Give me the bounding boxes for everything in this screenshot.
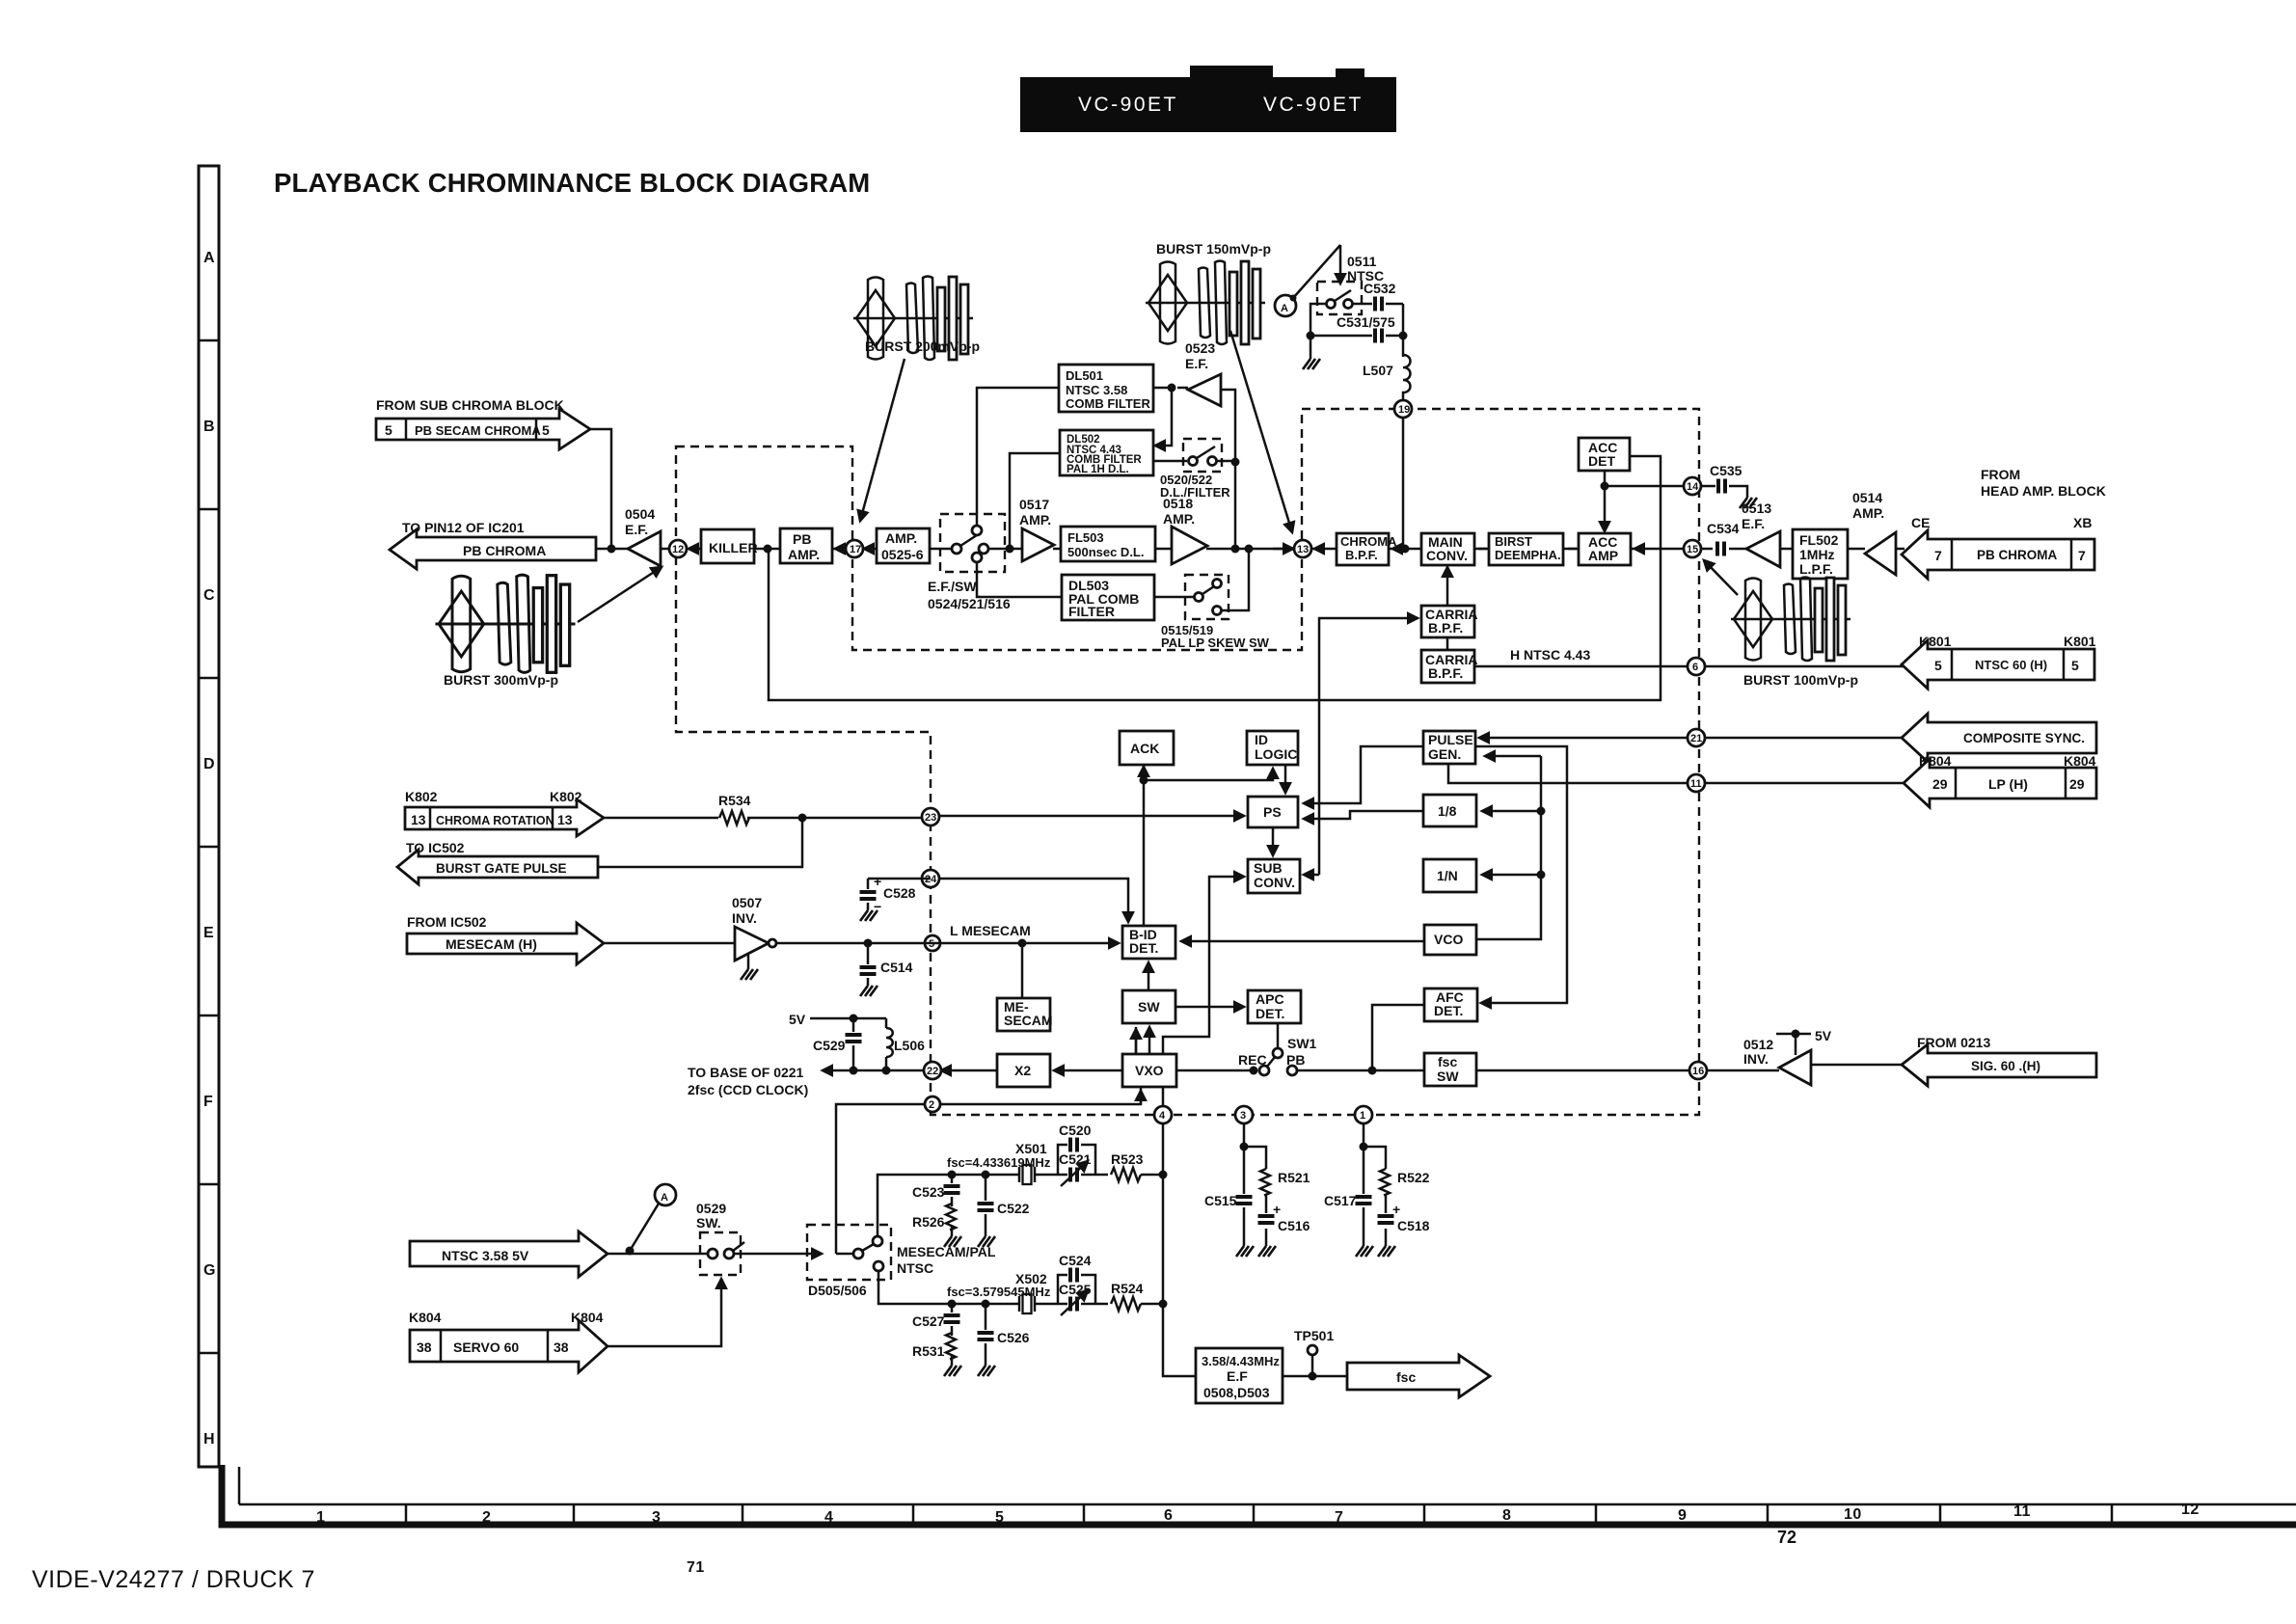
svg-text:VC-90ET: VC-90ET: [1078, 94, 1178, 116]
svg-text:CE: CE: [1911, 515, 1930, 530]
switch Q520/522: [1183, 439, 1222, 472]
svg-text:AMP.: AMP.: [885, 530, 917, 546]
svg-text:D: D: [203, 756, 215, 772]
svg-text:FROM: FROM: [1981, 467, 2020, 482]
svg-text:MESECAM/PAL: MESECAM/PAL: [897, 1244, 996, 1259]
svg-text:9: 9: [1678, 1507, 1687, 1524]
svg-text:AMP.: AMP.: [1019, 512, 1051, 528]
svg-text:LOGIC: LOGIC: [1255, 746, 1297, 762]
node 14: [1605, 485, 1684, 488]
svg-text:AMP.: AMP.: [1852, 505, 1884, 521]
5V at Q512: [1776, 1034, 1811, 1055]
svg-text:38: 38: [554, 1340, 569, 1355]
svg-text:C: C: [203, 587, 215, 604]
svg-text:SW.: SW.: [696, 1215, 721, 1231]
svg-text:C535: C535: [1710, 463, 1742, 478]
svg-text:5V: 5V: [1815, 1028, 1832, 1043]
svg-text:C529: C529: [813, 1038, 846, 1053]
FL503: [1061, 527, 1155, 561]
svg-text:MESECAM (H): MESECAM (H): [446, 936, 537, 952]
X2 box: [997, 1054, 1050, 1087]
ID LOGIC box: [1247, 731, 1298, 765]
svg-text:BURST 200mVp-p: BURST 200mVp-p: [865, 338, 980, 354]
svg-text:E.F.: E.F.: [1742, 516, 1765, 531]
node 3: [1235, 1106, 1253, 1123]
node 1 column to C517: [1364, 1123, 1386, 1169]
NTSC 60 arrow: [1902, 640, 2094, 689]
svg-text:17: 17: [850, 544, 861, 555]
CARRIA BPF 2: [1421, 650, 1474, 683]
crystal X502 lower rail: [878, 1271, 1163, 1304]
svg-text:XB: XB: [2073, 515, 2092, 530]
svg-text:13: 13: [1297, 544, 1309, 555]
VXO bottom to crystal column: [1163, 1087, 1196, 1376]
svg-text:L506: L506: [894, 1038, 925, 1053]
EF box 3.58/4.43: [1196, 1348, 1283, 1403]
svg-text:COMPOSITE SYNC.: COMPOSITE SYNC.: [1963, 731, 2085, 745]
svg-text:NTSC 60 (H): NTSC 60 (H): [1975, 658, 2047, 672]
svg-text:0508,D503: 0508,D503: [1203, 1385, 1270, 1400]
ID LOGIC to PS wire: [1284, 765, 1287, 793]
svg-text:C534: C534: [1707, 521, 1740, 536]
svg-text:PULSE: PULSE: [1428, 732, 1473, 747]
IC block dashed boundary: [676, 409, 1699, 1115]
svg-text:BURST GATE PULSE: BURST GATE PULSE: [436, 861, 567, 876]
svg-text:SECAM: SECAM: [1004, 1013, 1053, 1028]
capacitor C515: [1243, 1147, 1246, 1246]
SUB CONV right input wire: [1304, 874, 1319, 877]
svg-text:13: 13: [557, 812, 573, 827]
svg-text:7: 7: [2078, 548, 2086, 563]
svg-text:E.F.: E.F.: [1185, 356, 1208, 371]
svg-text:H: H: [203, 1431, 215, 1448]
CARRIA BPF 1 input wire: [1319, 618, 1418, 701]
svg-text:APC: APC: [1256, 991, 1284, 1007]
svg-text:13: 13: [411, 812, 426, 827]
wire to 0529 switch: [608, 1253, 707, 1256]
SW to APC wire: [1175, 1006, 1244, 1009]
svg-text:SW1: SW1: [1287, 1036, 1317, 1051]
wire secam to chain: [590, 429, 611, 549]
amp Q523: [1188, 374, 1221, 406]
burst 100 lens: [1731, 578, 1850, 662]
svg-text:R526: R526: [912, 1214, 945, 1230]
svg-text:FL502: FL502: [1799, 532, 1839, 548]
svg-text:NTSC 3.58 5V: NTSC 3.58 5V: [442, 1248, 529, 1263]
CARRIA BPF 1: [1421, 606, 1474, 637]
capacitor C516: [1265, 1194, 1268, 1246]
node 15: [1684, 540, 1701, 557]
svg-text:AMP.: AMP.: [1163, 511, 1195, 527]
svg-text:PS: PS: [1263, 804, 1282, 820]
svg-text:K802: K802: [405, 789, 438, 804]
amp Q518: [1172, 527, 1207, 564]
svg-text:NTSC: NTSC: [897, 1260, 933, 1276]
svg-text:VXO: VXO: [1135, 1063, 1164, 1078]
svg-text:0529: 0529: [696, 1201, 726, 1216]
svg-text:12: 12: [2181, 1502, 2200, 1518]
to base of Q221 wire: [823, 1069, 924, 1072]
svg-text:PAL LP SKEW SW: PAL LP SKEW SW: [1161, 636, 1270, 650]
node 24: [922, 870, 939, 887]
svg-text:+: +: [874, 874, 881, 889]
B-ID DET box: [1122, 926, 1175, 959]
svg-text:TP501: TP501: [1294, 1328, 1334, 1343]
svg-text:C517: C517: [1324, 1193, 1357, 1208]
svg-text:B: B: [203, 419, 215, 435]
svg-text:3.58/4.43MHz: 3.58/4.43MHz: [1202, 1354, 1280, 1368]
svg-text:K804: K804: [409, 1310, 442, 1325]
svg-text:fsc=4.433619MHz: fsc=4.433619MHz: [947, 1155, 1051, 1170]
ACK box: [1120, 731, 1174, 765]
R524: [1111, 1297, 1141, 1311]
switch SW1 REC/PB: [1277, 1023, 1280, 1048]
burst 200 lens: [853, 277, 973, 361]
svg-text:B.P.F.: B.P.F.: [1345, 548, 1378, 562]
svg-text:0504: 0504: [625, 506, 655, 522]
servo wire to 0529: [608, 1279, 721, 1346]
PS box: [1248, 797, 1298, 827]
svg-text:2: 2: [929, 1099, 934, 1111]
svg-text:A: A: [203, 250, 215, 266]
burst 150 lens: [1146, 261, 1265, 345]
svg-text:71: 71: [687, 1559, 705, 1576]
svg-text:C518: C518: [1397, 1218, 1430, 1233]
MAIN CONV to CARRIA wire: [1446, 567, 1449, 606]
svg-text:L507: L507: [1363, 363, 1393, 378]
svg-text:K801: K801: [2064, 634, 2096, 649]
svg-text:12: 12: [672, 544, 684, 555]
pointer burst300 to node12: [578, 567, 662, 622]
svg-text:PB SECAM CHROMA: PB SECAM CHROMA: [415, 423, 541, 438]
svg-text:C528: C528: [883, 885, 916, 901]
COMPOSITE SYNC arrow: [1902, 714, 2096, 762]
node 4: [1154, 1106, 1172, 1123]
svg-text:INV.: INV.: [732, 910, 757, 926]
svg-text:VC-90ET: VC-90ET: [1263, 94, 1364, 116]
svg-text:CHROMA: CHROMA: [1340, 534, 1397, 549]
burst 300 lens: [435, 575, 575, 672]
svg-text:3: 3: [652, 1509, 661, 1526]
svg-text:R524: R524: [1111, 1281, 1144, 1296]
svg-text:C525: C525: [1059, 1282, 1092, 1297]
svg-text:6: 6: [1692, 662, 1698, 673]
svg-text:E: E: [203, 925, 214, 941]
svg-text:6: 6: [1164, 1507, 1173, 1524]
1/N box: [1423, 859, 1476, 892]
amp Q512: [1779, 1050, 1811, 1085]
svg-text:1: 1: [1360, 1110, 1365, 1122]
svg-text:PB: PB: [793, 531, 811, 547]
svg-text:CONV.: CONV.: [1426, 548, 1468, 563]
svg-text:DET.: DET.: [1129, 940, 1158, 956]
BIRST DEEMPHA: [1489, 533, 1563, 565]
svg-text:BURST 100mVp-p: BURST 100mVp-p: [1743, 672, 1858, 688]
VXO to X2 wire: [1054, 1069, 1122, 1072]
ACC DET to ACC AMP wire: [1604, 471, 1607, 531]
MESECAM arrow: [407, 923, 604, 964]
svg-text:FROM IC502: FROM IC502: [407, 914, 487, 930]
svg-text:0517: 0517: [1019, 497, 1049, 512]
CARRIA1 to CARRIA2 wire: [1446, 637, 1449, 650]
svg-text:1: 1: [316, 1509, 325, 1526]
crystal X501 upper rail: [878, 1175, 1163, 1236]
capacitor C528: [867, 879, 870, 910]
svg-text:VCO: VCO: [1434, 932, 1463, 947]
test point A circle upper: [1275, 295, 1296, 316]
svg-text:SW: SW: [1138, 999, 1160, 1015]
wire pulse gen in2 from AFC column: [1475, 746, 1567, 1003]
svg-text:5: 5: [385, 422, 392, 438]
svg-text:SIG. 60 .(H): SIG. 60 .(H): [1971, 1059, 2040, 1073]
svg-text:11: 11: [1690, 778, 1702, 790]
svg-text:1MHz: 1MHz: [1799, 547, 1835, 562]
VXO to SUB CONV wire: [1163, 877, 1244, 1054]
PB AMP: [780, 528, 832, 563]
capacitor C518: [1385, 1194, 1388, 1246]
wire PS to PULSE GEN: [1304, 746, 1423, 803]
svg-text:1/8: 1/8: [1438, 803, 1457, 819]
svg-text:SW: SW: [1437, 1069, 1459, 1084]
VXO to SW wires: [1136, 1027, 1149, 1054]
svg-text:5: 5: [542, 422, 550, 438]
AFC DET: [1424, 988, 1477, 1021]
APC DET box: [1248, 990, 1301, 1023]
svg-text:7: 7: [1934, 548, 1942, 563]
DL501: [1059, 365, 1153, 412]
svg-text:NTSC 3.58: NTSC 3.58: [1066, 383, 1127, 397]
svg-text:B.P.F.: B.P.F.: [1428, 620, 1463, 636]
svg-text:5: 5: [995, 1509, 1004, 1526]
node 24 wire to B-ID top: [931, 879, 1128, 922]
SERVO 60 arrow: [410, 1320, 608, 1372]
svg-text:FROM SUB CHROMA BLOCK: FROM SUB CHROMA BLOCK: [376, 397, 564, 413]
svg-text:D.L./FILTER: D.L./FILTER: [1160, 485, 1230, 500]
svg-text:E.F./SW: E.F./SW: [928, 579, 977, 594]
node 16: [1689, 1062, 1707, 1079]
node 22: [924, 1062, 941, 1079]
switch Q511: [1317, 282, 1362, 314]
svg-text:LP (H): LP (H): [1988, 776, 2028, 792]
svg-text:DL501: DL501: [1066, 368, 1103, 383]
ground below C531: [1310, 336, 1312, 359]
svg-text:0513: 0513: [1742, 501, 1771, 516]
MAIN CONV: [1421, 533, 1474, 565]
svg-text:X501: X501: [1015, 1141, 1047, 1156]
svg-text:C527: C527: [912, 1313, 945, 1329]
svg-text:K804: K804: [571, 1310, 604, 1325]
svg-text:G: G: [203, 1262, 216, 1279]
svg-text:7: 7: [1335, 1509, 1343, 1526]
svg-text:A: A: [1281, 303, 1288, 314]
svg-text:23: 23: [925, 812, 936, 824]
node 3 column to C515: [1244, 1123, 1266, 1169]
VCO to B-ID wire: [1181, 940, 1424, 943]
node 12: [669, 540, 687, 557]
svg-text:INV.: INV.: [1743, 1051, 1769, 1067]
wire pulse gen bottom to node 11: [1448, 764, 1688, 783]
NTSC 3.58 5V arrow: [410, 1232, 608, 1277]
C523 R526: [951, 1175, 954, 1236]
svg-text:X2: X2: [1014, 1063, 1031, 1078]
wire 1/N right from VCO: [1476, 875, 1541, 939]
pointer burst100 to node15: [1704, 560, 1738, 595]
PS to SUB CONV wire: [1272, 827, 1275, 855]
svg-text:C515: C515: [1204, 1193, 1237, 1208]
svg-text:DET: DET: [1588, 453, 1615, 469]
wire node21 to pulse gen: [1479, 737, 1688, 740]
svg-text:1/N: 1/N: [1437, 868, 1458, 883]
R523: [1111, 1168, 1141, 1181]
svg-text:8: 8: [1502, 1507, 1511, 1524]
SIG 60 arrow: [1902, 1044, 2096, 1086]
svg-text:15: 15: [1687, 544, 1698, 555]
C527 R531: [951, 1304, 954, 1366]
node 17: [846, 540, 863, 557]
ACC AMP: [1579, 533, 1631, 565]
fsc row wire: [1298, 1069, 1779, 1072]
wire 1/8 left to PS: [1304, 811, 1423, 819]
LP arrow: [1904, 759, 2096, 807]
SW to B-ID wire: [1148, 962, 1150, 990]
1/8 box: [1423, 795, 1476, 826]
svg-text:PLAYBACK CHROMINANCE BLOCK: PLAYBACK CHROMINANCE BLOCK DIAGRAM: [274, 168, 870, 198]
node23 to PS wire: [939, 815, 1244, 818]
switch Q515/519: [1185, 575, 1229, 619]
ACC DET: [1579, 438, 1630, 471]
junction chroma bpf: [1401, 545, 1410, 554]
AMP 0525-6: [877, 528, 930, 563]
FL502: [1793, 529, 1848, 579]
capacitor C514: [867, 943, 870, 986]
svg-text:B.P.F.: B.P.F.: [1428, 665, 1463, 681]
amp Q514: [1865, 532, 1896, 575]
VCO box: [1424, 925, 1476, 955]
svg-text:BIRST: BIRST: [1495, 534, 1532, 549]
ME-SECAM box: [997, 998, 1050, 1031]
node 13: [1294, 540, 1311, 557]
svg-text:DET.: DET.: [1256, 1006, 1284, 1021]
svg-text:L MESECAM: L MESECAM: [950, 923, 1031, 938]
svg-text:2: 2: [482, 1509, 491, 1526]
svg-text:KILLER: KILLER: [709, 540, 758, 555]
svg-text:CONV.: CONV.: [1254, 875, 1295, 890]
svg-text:E.F: E.F: [1227, 1368, 1248, 1384]
svg-text:500nsec D.L.: 500nsec D.L.: [1067, 545, 1145, 559]
main signal chain wire: [596, 548, 951, 551]
svg-text:GEN.: GEN.: [1428, 746, 1461, 762]
VXO box: [1122, 1054, 1176, 1087]
switch D505/506: [807, 1225, 891, 1280]
svg-text:19: 19: [1398, 404, 1410, 416]
svg-text:11: 11: [2013, 1503, 2031, 1520]
svg-text:CHROMA ROTATION: CHROMA ROTATION: [436, 814, 554, 827]
wire DL501 out: [1153, 388, 1172, 446]
svg-text:0524/521/516: 0524/521/516: [928, 596, 1011, 611]
svg-text:COMB FILTER: COMB FILTER: [1066, 396, 1150, 411]
pointer burst200 to node17: [860, 359, 905, 521]
fsc SW: [1424, 1053, 1476, 1086]
R534: [604, 817, 922, 820]
AFC DET left wire down to fsc row: [1372, 1005, 1424, 1070]
svg-text:C522: C522: [997, 1201, 1030, 1216]
node 11: [1705, 782, 1904, 785]
svg-text:BURST 150mVp-p: BURST 150mVp-p: [1156, 241, 1271, 257]
svg-text:VIDE-V24277 / DRUCK 7: VIDE-V24277 / DRUCK 7: [32, 1566, 315, 1593]
svg-text:fsc=3.579545MHz: fsc=3.579545MHz: [947, 1285, 1051, 1299]
svg-text:3: 3: [1240, 1110, 1246, 1122]
CHROMA BPF: [1337, 533, 1389, 565]
svg-text:C521: C521: [1059, 1151, 1092, 1167]
junction killer out: [764, 545, 772, 554]
junction Q517 in: [1006, 545, 1014, 554]
svg-text:DEEMPHA.: DEEMPHA.: [1495, 548, 1561, 562]
svg-text:fsc: fsc: [1396, 1369, 1416, 1385]
wire Q507 to B-ID: [776, 942, 1119, 945]
X2 to node22 wire: [941, 1069, 997, 1072]
C522: [985, 1175, 987, 1236]
inductor L507: [1402, 304, 1405, 357]
node 19: [1394, 400, 1412, 418]
amp Q517: [1022, 528, 1054, 561]
pointer burst150 to node13: [1230, 331, 1292, 532]
svg-text:22: 22: [927, 1066, 938, 1077]
svg-text:C524: C524: [1059, 1253, 1092, 1268]
svg-text:5: 5: [1934, 658, 1942, 673]
black model banner: [1020, 66, 1396, 132]
svg-text:FILTER: FILTER: [1068, 604, 1115, 619]
SW box: [1122, 990, 1175, 1023]
wire 1/8 right: [1482, 810, 1541, 813]
svg-text:ACK: ACK: [1130, 741, 1159, 756]
DL502: [1060, 430, 1153, 475]
SUB CONV box: [1248, 859, 1300, 893]
svg-text:4: 4: [1159, 1110, 1166, 1122]
svg-text:C514: C514: [880, 960, 913, 975]
svg-text:TO PIN12 OF IC201: TO PIN12 OF IC201: [402, 520, 525, 535]
bottom ruler band: [222, 1465, 2296, 1526]
fsc output arrow: [1347, 1355, 1490, 1397]
PB SECAM CHROMA arrow: [376, 409, 590, 449]
KILLER: [701, 529, 754, 563]
resistor R522: [1380, 1169, 1390, 1196]
svg-text:5: 5: [2071, 658, 2079, 673]
svg-text:5V: 5V: [789, 1012, 806, 1027]
wire Q523 to chain: [1177, 388, 1235, 549]
wire pulse gen in3 from 1/8 column: [1485, 755, 1541, 758]
node 5: [925, 935, 940, 951]
node 21: [1705, 737, 1902, 740]
PB CHROMA output arrow: [390, 529, 596, 569]
svg-text:C520: C520: [1059, 1123, 1092, 1138]
svg-text:DET.: DET.: [1434, 1003, 1463, 1018]
svg-text:PAL 1H D.L.: PAL 1H D.L.: [1067, 464, 1129, 475]
svg-text:10: 10: [1844, 1506, 1862, 1523]
junction PB secam: [608, 545, 616, 554]
svg-text:C523: C523: [912, 1184, 945, 1200]
svg-text:AMP: AMP: [1588, 548, 1618, 563]
amp Q513: [1746, 531, 1780, 567]
svg-text:16: 16: [1692, 1066, 1704, 1077]
node 2 and VXO bottom row: [836, 1087, 1141, 1254]
svg-text:E.F.: E.F.: [625, 522, 648, 537]
amp Q504: [628, 531, 661, 566]
svg-text:38: 38: [417, 1340, 432, 1355]
DL503: [1062, 575, 1154, 620]
svg-text:L.P.F.: L.P.F.: [1799, 561, 1833, 577]
svg-text:SERVO 60: SERVO 60: [453, 1340, 519, 1355]
test point A circle lower: [655, 1184, 676, 1205]
